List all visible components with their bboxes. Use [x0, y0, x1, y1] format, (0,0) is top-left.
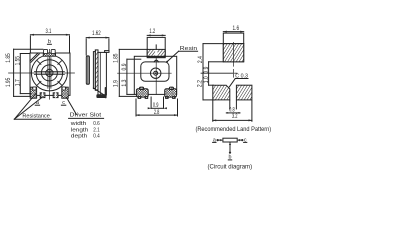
label b	[47, 39, 51, 45]
left dimensions of top view	[5, 49, 43, 96]
wire a to resistor with arrow	[218, 139, 223, 141]
land pattern bottom right pad	[236, 85, 252, 100]
top view centerlines	[9, 49, 75, 99]
land pattern top pad	[203, 33, 244, 77]
circuit label b	[228, 154, 231, 160]
land pattern gap dimension 0.8	[226, 100, 240, 114]
front view bottom dimension 2.8	[136, 99, 178, 116]
land pattern dimension 1.6	[223, 25, 243, 32]
svg-text:3.1: 3.1	[46, 28, 52, 35]
svg-text:1.55: 1.55	[14, 56, 21, 66]
terminal a pad (bottom left)	[30, 87, 36, 98]
wiper wire with arrow	[229, 142, 231, 152]
land pattern dimension 3.2	[213, 101, 252, 122]
svg-text:depth: depth	[71, 133, 88, 139]
front view dimension 1.2	[147, 28, 165, 36]
svg-text:(Recommended Land Pattern): (Recommended Land Pattern)	[195, 126, 271, 133]
label a	[35, 100, 40, 106]
top view body outline	[30, 53, 70, 95]
svg-text:1.85: 1.85	[5, 53, 12, 63]
chamfer callout C 0.3	[229, 74, 248, 87]
front view body	[134, 56, 176, 94]
svg-text:0.9: 0.9	[121, 63, 128, 70]
svg-text:0.6: 0.6	[93, 121, 100, 127]
land pattern left dimensions	[197, 44, 237, 100]
svg-text:0.4: 0.4	[93, 133, 100, 139]
front view right terminal	[165, 87, 177, 98]
Resin callout	[166, 46, 197, 63]
svg-text:1.2: 1.2	[149, 28, 155, 35]
wire resistor to c with arrow	[237, 139, 242, 141]
svg-text:Driver Slot: Driver Slot	[70, 113, 102, 119]
resin seal outline	[141, 60, 169, 81]
label c	[61, 100, 65, 106]
side view body	[86, 50, 109, 98]
front view left terminal	[136, 87, 148, 98]
front view bottom dimension 0.9	[148, 97, 167, 109]
svg-text:1.7: 1.7	[14, 79, 21, 86]
rotor driver slot	[34, 58, 64, 89]
land pattern bottom left pad	[213, 85, 230, 100]
svg-text:2.1: 2.1	[93, 127, 100, 133]
svg-text:1.95: 1.95	[5, 77, 12, 87]
svg-text:Resistance: Resistance	[22, 113, 49, 119]
svg-text:length: length	[71, 127, 89, 133]
svg-text:1.62: 1.62	[92, 30, 101, 37]
svg-text:1.85: 1.85	[113, 53, 120, 63]
terminal b pad (top)	[43, 49, 55, 56]
svg-text:2.2: 2.2	[197, 80, 204, 87]
front view left dimensions	[113, 49, 141, 96]
circuit node c dot	[241, 139, 243, 141]
circuit label c	[244, 137, 247, 143]
svg-text:0.9: 0.9	[203, 66, 210, 73]
circuit node a dot	[217, 139, 219, 141]
top view dimension 3.1	[30, 28, 69, 53]
svg-text:2.4: 2.4	[197, 56, 204, 63]
Driver Slot callout	[66, 97, 103, 139]
svg-text:width: width	[70, 121, 87, 127]
circuit label a	[213, 137, 216, 143]
caption recommended land pattern	[195, 126, 271, 133]
front view center circle	[151, 68, 161, 78]
circuit node b dot	[229, 152, 231, 154]
terminal c pad (bottom right)	[62, 87, 68, 98]
svg-text:(Circuit diagram): (Circuit diagram)	[208, 164, 253, 171]
svg-text:3.2: 3.2	[232, 113, 238, 120]
front view shaft boss	[119, 37, 165, 57]
front view centerlines	[118, 56, 172, 94]
svg-text:1.9: 1.9	[113, 80, 120, 87]
side view dimension 1.62	[86, 30, 109, 55]
caption circuit diagram	[208, 164, 253, 171]
resistor body	[223, 138, 237, 142]
svg-text:1.0: 1.0	[203, 76, 210, 83]
inner contact rects	[40, 92, 58, 98]
svg-text:1.3: 1.3	[121, 79, 128, 86]
rotor quadrant marks	[37, 61, 61, 85]
Resistance callout	[14, 94, 51, 120]
rotor circles	[31, 55, 67, 91]
